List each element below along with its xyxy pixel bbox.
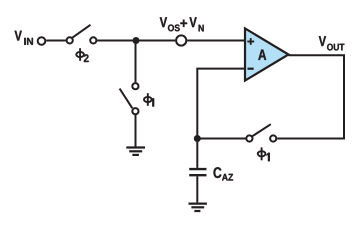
- label phi1 mid symbol: [144, 93, 152, 106]
- switch phi1 feedback: [246, 124, 276, 141]
- wire feedback switch to output corner: [277, 55, 344, 138]
- label phi1 fb subscript 1: [267, 153, 270, 161]
- op-amp minus input sign: [248, 68, 254, 70]
- wire node B to feedback switch: [197, 138, 245, 140]
- noise source Vos+Vn: [176, 35, 186, 45]
- label phi2 subscript 2: [84, 54, 89, 62]
- ground 2: [189, 204, 207, 211]
- wire switch phi1 down to ground: [135, 114, 137, 147]
- capacitor CAZ plates: [189, 169, 206, 175]
- label Vn V: [189, 17, 196, 27]
- label plus sign: [180, 20, 187, 27]
- wire op-amp minus input to node B: [197, 69, 245, 139]
- label phi2 symbol: [76, 48, 84, 61]
- label phi1 feedback symbol: [258, 147, 266, 160]
- label C subscript AZ: [222, 174, 228, 181]
- terminal VIN: [38, 37, 46, 45]
- switch phi1 vertical: [120, 83, 139, 114]
- label C: [213, 167, 221, 178]
- op-amp plus input sign: [247, 38, 254, 45]
- wire node A to noise source: [136, 40, 175, 42]
- wire capacitor to ground: [196, 176, 198, 202]
- wire switch phi2 to node A: [97, 40, 136, 42]
- node A junction: [133, 37, 140, 44]
- label Vout V: [319, 36, 326, 46]
- label Vout subscript OUT: [327, 44, 333, 51]
- switch phi2: [67, 25, 97, 44]
- wire node B down to capacitor: [196, 139, 198, 168]
- label V subscript IN: [24, 38, 25, 45]
- label Vos subscript OS: [168, 24, 174, 31]
- label phi1 mid subscript 1: [151, 98, 154, 106]
- node B junction: [194, 135, 201, 142]
- label Vos V: [160, 17, 167, 27]
- label V: [15, 31, 22, 41]
- wire op-amp output: [289, 54, 346, 56]
- wire node A down to switch phi1: [135, 41, 137, 83]
- wire noise source to op-amp plus input: [187, 40, 245, 42]
- op-amp gain label A: [258, 50, 266, 60]
- wire VIN terminal to switch phi2: [46, 40, 66, 42]
- ground 1: [126, 148, 145, 155]
- label Vn subscript N: [199, 25, 204, 32]
- op-amp U1 A: [245, 28, 289, 80]
